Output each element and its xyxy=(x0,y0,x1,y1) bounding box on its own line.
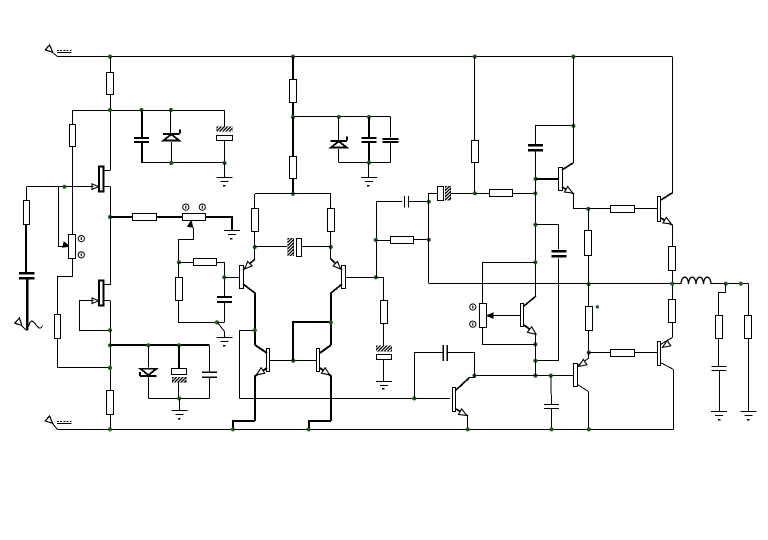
wire R7 to base node xyxy=(217,263,225,278)
node bot x308 xyxy=(307,427,311,431)
wire fb elec link xyxy=(429,194,438,202)
node bot x233 xyxy=(231,427,235,431)
wire x535 upper xyxy=(535,151,537,296)
resistor R22 emitter low xyxy=(669,284,676,323)
resistor R14 fb shunt xyxy=(376,278,388,324)
electrolytic capacitor C5 xyxy=(172,345,187,398)
resistor R10 xyxy=(290,117,297,194)
node y117 a xyxy=(291,115,295,119)
wire Q2 base xyxy=(345,277,384,279)
wire bottom rail xyxy=(57,429,673,431)
ground G1 xyxy=(217,163,233,187)
wire P2 to ground xyxy=(206,217,232,231)
capacitor C15 miller xyxy=(415,345,475,399)
wire P1 bottom to R3 xyxy=(58,259,73,315)
resistor R20 xyxy=(586,284,593,352)
node y162 gnd xyxy=(367,161,371,165)
resistor R2 xyxy=(70,125,76,147)
wire C13 bottom link xyxy=(536,259,559,361)
wire J2 gate loop xyxy=(80,301,111,331)
wire y375 vas out xyxy=(475,375,574,377)
wire gate J1 xyxy=(27,186,93,188)
wire x535 lower xyxy=(535,334,537,375)
transistor Q6 driver top xyxy=(559,57,589,209)
node zener D1 top xyxy=(169,108,173,112)
node out x725 xyxy=(724,282,728,286)
ground G6 xyxy=(376,382,392,390)
wire Q3 emitter jog xyxy=(233,421,255,429)
node y375 c xyxy=(549,374,553,378)
node tail xyxy=(177,260,181,264)
node x535 y344 xyxy=(533,342,537,346)
node bot x551 xyxy=(549,427,553,431)
resistor R19 xyxy=(585,209,592,284)
wire zobel drop xyxy=(719,284,726,316)
wire fb res leg xyxy=(376,240,391,242)
node x535 y361 xyxy=(533,359,537,363)
node top rail A xyxy=(108,55,112,59)
wire load drop xyxy=(748,284,750,316)
terminal T3 negative supply xyxy=(45,416,57,430)
capacitor C1 xyxy=(134,110,149,163)
node miller tap xyxy=(412,396,416,400)
label V+ (dashed) xyxy=(57,51,72,53)
JFET J2 xyxy=(92,217,111,330)
node top rail D xyxy=(571,55,575,59)
node y375 a xyxy=(472,374,476,378)
node 110/110 xyxy=(108,108,112,112)
ground G5 xyxy=(361,163,377,187)
transistor Q10 VAS xyxy=(453,376,475,430)
resistor R15 xyxy=(472,57,479,194)
ground G8 xyxy=(740,412,756,421)
wire after inductor xyxy=(711,283,748,285)
node emitter R xyxy=(329,245,333,249)
pin mark P2-1 xyxy=(183,204,189,210)
node bot x467 xyxy=(466,427,470,431)
capacitor C7 xyxy=(361,117,376,163)
capacitor C16 xyxy=(544,376,559,430)
zener diode D2 xyxy=(140,345,157,398)
transistor Q5 vbe multiplier xyxy=(521,296,537,335)
node x535 y262 xyxy=(533,260,537,264)
capacitor C13 thick xyxy=(551,251,566,256)
transistor Q9 output PNP xyxy=(658,323,674,430)
node gate J1 xyxy=(62,185,66,189)
transistor Q4 mirror right xyxy=(317,345,332,421)
wire R8 to ground run xyxy=(179,301,225,323)
wire R3 to node xyxy=(58,339,111,368)
electrolytic capacitor C12 xyxy=(376,324,392,382)
wire y247 left xyxy=(255,246,287,248)
resistor R4 input xyxy=(24,187,30,225)
node out x740 xyxy=(739,282,743,286)
wire C13 top link xyxy=(536,225,559,250)
wire load to ground xyxy=(748,338,750,412)
wire R2 top feed xyxy=(72,110,74,125)
capacitor C17 zobel xyxy=(712,338,727,412)
wire Q10 base link xyxy=(536,178,559,180)
node mirror bases xyxy=(291,359,295,363)
node x535 y224 xyxy=(533,223,537,227)
resistor R21 output base low xyxy=(589,350,658,357)
node J1 source xyxy=(108,215,112,219)
node LTP left base xyxy=(222,275,226,279)
node Q2 base fb xyxy=(374,275,378,279)
transistor Q8 driver bottom xyxy=(574,353,589,430)
node driver top emitter xyxy=(586,207,590,211)
resistor R23 zobel xyxy=(716,316,723,339)
node ground hook xyxy=(215,320,219,324)
pin mark P1-1 xyxy=(78,236,84,242)
transistor Q3 mirror left xyxy=(255,345,270,421)
node J2 source xyxy=(108,328,112,332)
node out x672 xyxy=(670,282,674,286)
wire top supply rail xyxy=(57,57,672,194)
node R15 bottom xyxy=(473,191,477,195)
electrolytic capacitor C9 xyxy=(287,238,331,257)
node y163 a xyxy=(169,161,173,165)
resistor R1 xyxy=(107,57,114,167)
wire Q4 emitter jog xyxy=(309,421,331,429)
node fb out a xyxy=(427,200,431,204)
wire VAS base xyxy=(240,398,450,400)
wire rail y345 thick xyxy=(110,344,209,346)
node x535 y179 xyxy=(534,177,538,181)
resistor R16 xyxy=(475,190,536,197)
resistor R12 xyxy=(328,194,335,247)
node rail x589 xyxy=(587,282,591,286)
node top rail B xyxy=(291,55,295,59)
wire y163 xyxy=(142,162,225,164)
transistor Q1 PNP xyxy=(240,247,256,345)
wire fb cap leg xyxy=(376,201,402,203)
resistor R24 load xyxy=(745,316,752,339)
label V- (dashed) xyxy=(57,422,72,424)
pin mark P2-2 xyxy=(199,204,205,210)
wire y117 xyxy=(293,116,391,118)
ground G7 xyxy=(711,412,727,421)
wire y110 xyxy=(73,110,225,112)
pin mark P3-2 xyxy=(470,321,476,327)
node fb mid xyxy=(374,238,378,242)
capacitor C6 xyxy=(202,346,217,399)
node top rail C xyxy=(473,55,477,59)
terminal T1 positive supply input xyxy=(45,45,57,57)
node trio b xyxy=(177,343,181,347)
node cap C1 top xyxy=(139,108,143,112)
resistor R17 output base xyxy=(588,206,657,213)
wire P3 wiper xyxy=(487,313,520,318)
node mirror link xyxy=(329,320,333,324)
capacitor C14 speedup xyxy=(528,126,573,151)
capacitor C4 input base xyxy=(217,277,232,322)
wire y194 xyxy=(255,193,331,195)
node y117 b xyxy=(337,115,341,119)
pin mark P1-2 xyxy=(78,252,84,258)
node bot x110 xyxy=(108,427,112,431)
capacitor C8 xyxy=(383,117,399,163)
node y368 xyxy=(108,366,112,370)
trimmer P2 xyxy=(183,214,206,221)
resistor R6 xyxy=(133,214,157,221)
node y163 b xyxy=(222,161,226,165)
wire output rail xyxy=(429,283,681,285)
label input tilde xyxy=(29,321,43,328)
electrolytic capacitor C2 xyxy=(217,110,233,163)
node rail345 xyxy=(108,343,112,347)
node emitter L xyxy=(253,245,257,249)
node fb out b xyxy=(427,238,431,242)
resistor R3 xyxy=(55,315,61,339)
zener diode D3 xyxy=(331,117,348,163)
zener diode D1 xyxy=(163,110,180,163)
node x535 y375 xyxy=(533,374,537,378)
wire fb to output xyxy=(428,202,430,284)
capacitor C3 input xyxy=(19,224,35,330)
resistor R7 xyxy=(194,259,217,266)
wire R2 to pot P1 xyxy=(72,147,74,235)
wire mirror diode link xyxy=(293,322,331,361)
wire y162 xyxy=(339,162,391,164)
node x535 y193 xyxy=(533,191,537,195)
resistor R18 emitter xyxy=(669,247,676,284)
node trio a xyxy=(146,343,150,347)
trimmer P3 bias xyxy=(480,304,487,328)
JFET J1 xyxy=(92,167,111,218)
transistor Q2 PNP xyxy=(331,247,346,345)
wire mirror bases xyxy=(270,360,316,362)
terminal T2 signal input xyxy=(15,318,27,331)
wire Q1 base xyxy=(224,277,240,279)
trimmer P1 xyxy=(69,235,76,259)
node y117 c xyxy=(367,115,371,119)
wire P1 wiper xyxy=(59,187,70,248)
ground G2 xyxy=(224,231,240,240)
wire y398 trio xyxy=(148,398,209,400)
resistor R5 xyxy=(107,391,114,430)
wire bias pot bottom xyxy=(483,328,536,345)
node Q1 collector xyxy=(253,328,257,332)
electrolytic capacitor C11 xyxy=(438,186,475,201)
wire x110 down xyxy=(110,330,112,391)
resistor R11 xyxy=(252,194,259,247)
resistor R9 xyxy=(290,57,297,117)
node trio gnd xyxy=(177,396,181,400)
pin mark P3-1 xyxy=(470,304,476,310)
wire node-R7 xyxy=(179,262,193,264)
wire bias pot top xyxy=(483,263,536,304)
node LTP feed xyxy=(291,192,295,196)
ground G4 xyxy=(171,399,187,420)
inductor L1 xyxy=(681,277,711,284)
wire y217 thick xyxy=(110,216,133,218)
wire R6-P2 xyxy=(156,216,183,218)
ground G3 hook xyxy=(216,323,232,347)
node driver bottom emitter xyxy=(587,351,591,355)
wire Q1 collector tap xyxy=(240,331,255,399)
resistor R13 feedback xyxy=(391,237,429,244)
resistor R8 tail xyxy=(176,262,183,300)
transistor Q7 output NPN xyxy=(658,193,673,247)
capacitor C10 feedback xyxy=(405,196,429,208)
wire fb riser xyxy=(376,202,378,278)
small dot mark xyxy=(596,305,599,308)
node x573 y126 xyxy=(571,124,575,128)
wire P2 wiper xyxy=(179,221,194,263)
node bot x588 xyxy=(587,427,591,431)
